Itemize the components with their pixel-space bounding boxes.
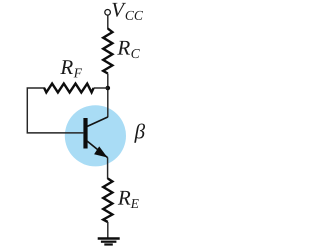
label RE (118, 191, 139, 208)
transistor highlight circle (65, 105, 126, 166)
transistor Q1 emitter line (87, 141, 108, 158)
resistor RE (103, 179, 112, 223)
transistor Q1 base bar (83, 118, 87, 149)
transistor Q1 collector line (87, 117, 108, 127)
Vcc terminal (105, 10, 111, 16)
wire emitter to Re (107, 158, 109, 180)
resistor RC (103, 29, 112, 74)
wire Re to ground (107, 222, 109, 238)
label RF (60, 60, 82, 77)
transistor Q1 emitter arrow (94, 146, 107, 157)
label beta (134, 124, 145, 143)
wire RF to node (94, 87, 108, 89)
resistor RF (44, 84, 93, 93)
label VCC (112, 3, 143, 20)
node junction dot (106, 86, 111, 91)
wire Vcc to Rc (107, 15, 109, 29)
ground (98, 239, 120, 245)
label RC (117, 41, 140, 58)
wire feedback loop (RF left lead, down, to base) (27, 88, 83, 133)
wire Rc to collector (107, 74, 109, 118)
